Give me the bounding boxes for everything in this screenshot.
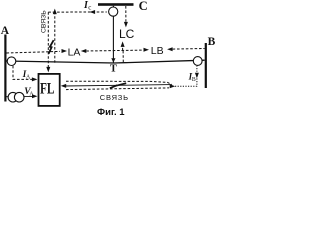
arrowhead down on Ib tap [195,73,199,79]
arrowhead right of LB [167,47,173,51]
fault locator FL box [39,74,60,106]
arrowhead left of dashed LA-LB [81,49,87,53]
wire: dotted to corner below B [175,66,197,87]
CT circle at A [7,57,16,66]
arrowhead up at top of right channel [53,9,57,15]
wire: branch line T-C [112,6,114,63]
svg-text:LC: LC [119,27,135,41]
arrowhead at T on branch [111,58,115,62]
wire: dashed up toward LC [122,45,124,50]
svg-text:СВЯЗЬ: СВЯЗЬ [41,10,48,33]
svg-text:c: c [88,3,91,11]
wire: dashed A to LA [7,51,61,53]
svg-text:C: C [139,0,148,13]
svg-text:LA: LA [68,47,81,59]
wire: dashed LA to LB [86,49,144,52]
zigzag break (channel B) [110,83,126,88]
zigzag break (channel C) [49,40,54,54]
svg-text:B: B [192,77,196,83]
wire: comm channel upper dashed FL-B [66,81,172,84]
arrowhead Va into FL [32,94,38,98]
CT circle at C [109,7,118,16]
wire: dashed LB to bus B [173,48,205,51]
arrowhead into LB [144,48,150,52]
wire: dashed Ia from CT A [13,66,33,80]
svg-text:СВЯЗЬ: СВЯЗЬ [100,93,129,102]
arrowhead Ia into FL [32,77,38,81]
svg-text:T: T [110,63,117,74]
wire: main transmission line A-T-B [5,60,204,63]
wire: comm channel horizontal to CT C [48,11,107,13]
wire: dashed junction to T [122,51,124,63]
arrowhead left on channel (Ic direction) [90,10,96,14]
arrowhead into LA [62,49,68,53]
arrowhead down into FL top [46,67,50,73]
CT circle at B [193,57,202,66]
arrowhead down into LC [124,22,128,28]
bus A [4,35,6,102]
svg-text:FL: FL [40,80,55,97]
wire: Va to FL [24,95,33,97]
svg-text:B: B [208,36,216,48]
bus C [98,3,134,6]
bus B [205,43,207,88]
VT double circle at A [7,96,10,98]
svg-text:Фиг. 1: Фиг. 1 [97,107,125,118]
arrowhead at merge [170,84,176,88]
wire: dashed bus C down to LC [125,6,127,23]
wire: comm channel vertical left (to FL) [47,12,49,68]
wire: comm channel vertical right (to line T) [54,14,56,63]
wire: comm channel lower dashed FL-B [66,88,169,90]
svg-text:A: A [1,25,10,37]
arrowhead up into LC [121,41,125,47]
svg-text:LB: LB [151,45,164,57]
wire: comm channel middle solid with arrow into FL [64,85,171,86]
